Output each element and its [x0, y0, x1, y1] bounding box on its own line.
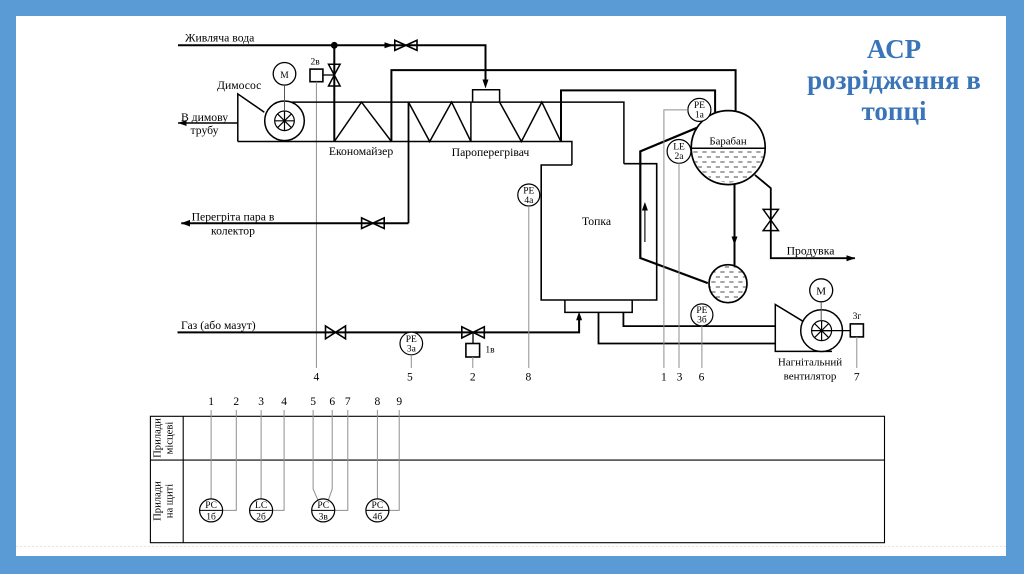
downcomer pipe: [734, 185, 736, 266]
svg-text:4а: 4а: [524, 196, 534, 206]
svg-text:6: 6: [329, 396, 335, 408]
flue duct top wall: [291, 102, 624, 164]
controller PC 3в: [312, 499, 335, 523]
header panel devices: [153, 481, 176, 521]
svg-text:7: 7: [345, 396, 351, 408]
svg-text:2а: 2а: [675, 152, 685, 162]
svg-text:РЕ: РЕ: [696, 306, 707, 316]
svg-text:Топка: Топка: [582, 215, 612, 228]
forced draft fan housing: [775, 305, 832, 352]
economizer outlet pipe to drum: [391, 70, 735, 141]
blowdown valve: [763, 209, 778, 230]
svg-text:8: 8: [526, 371, 532, 383]
controller PC 1б: [200, 499, 223, 523]
svg-text:3в: 3в: [319, 513, 329, 523]
svg-text:трубу: трубу: [191, 124, 219, 137]
forced draft fan: [801, 310, 843, 352]
air duct from fan to burner: [623, 312, 775, 326]
svg-text:Барабан: Барабан: [709, 136, 746, 148]
valve 2в: [329, 64, 341, 86]
svg-text:5: 5: [407, 371, 413, 383]
svg-text:на щиті: на щиті: [165, 484, 176, 518]
svg-text:Прилади: Прилади: [153, 418, 164, 458]
svg-text:РЕ: РЕ: [406, 335, 417, 345]
table header divider: [182, 416, 184, 542]
blowdown arrow: [847, 255, 856, 261]
steam valve: [362, 218, 385, 229]
table column numbers: [208, 396, 402, 408]
table wire 2: [223, 410, 237, 510]
svg-text:2в: 2в: [311, 58, 321, 68]
svg-text:РС: РС: [372, 501, 384, 511]
header local devices: [153, 418, 176, 458]
table wire 9: [389, 410, 399, 510]
svg-text:1: 1: [208, 396, 214, 408]
signal wire from 2в to node 4: [315, 82, 317, 368]
svg-text:2: 2: [233, 396, 239, 408]
svg-text:9: 9: [396, 396, 402, 408]
feed valve: [395, 40, 417, 50]
riser panel wall: [640, 128, 708, 283]
downcomer flow arrow: [734, 205, 736, 239]
svg-text:6: 6: [699, 371, 705, 383]
superheater coil 2: [500, 102, 561, 142]
svg-text:Пароперегрівач: Пароперегрівач: [452, 146, 530, 159]
svg-text:Прилади: Прилади: [153, 481, 164, 521]
gas pipe: [178, 318, 580, 332]
svg-text:3г: 3г: [853, 312, 862, 322]
actuator box 2в: [310, 69, 323, 82]
svg-text:РЕ: РЕ: [694, 101, 705, 111]
table wire 1: [210, 410, 212, 499]
feed junction node: [331, 42, 338, 49]
motor M of smoke exhauster: [273, 63, 296, 86]
svg-text:4: 4: [314, 371, 320, 383]
svg-text:3б: 3б: [697, 315, 707, 326]
signal wire PE3a to node 5: [410, 355, 412, 368]
smoke exhauster fan: [265, 101, 305, 141]
signal wire 1в to node 2: [472, 357, 474, 368]
svg-text:РС: РС: [317, 501, 329, 511]
svg-text:Живляча вода: Живляча вода: [185, 32, 255, 45]
svg-text:7: 7: [854, 371, 860, 383]
svg-text:2: 2: [470, 371, 476, 383]
svg-text:1: 1: [661, 371, 667, 383]
attemperator box: [473, 90, 500, 102]
svg-text:місцеві: місцеві: [165, 422, 176, 455]
signal wire LE2a to node 3: [678, 163, 680, 368]
signal wire PE4a to node 8: [528, 206, 530, 368]
instrument PE 4a: [518, 184, 540, 206]
svg-text:М: М: [280, 71, 289, 81]
svg-text:топці: топці: [861, 96, 927, 126]
faint divider near bottom: [16, 546, 1006, 548]
svg-text:5: 5: [310, 396, 316, 408]
steam arrow: [181, 220, 190, 227]
riser flow arrow: [644, 208, 646, 242]
table wire 5: [313, 410, 318, 500]
svg-text:1а: 1а: [695, 111, 705, 121]
svg-text:М: М: [816, 286, 826, 298]
feed water pipe: [178, 45, 486, 80]
feed arrow down into attemperator box: [483, 80, 489, 89]
chimney outlet wire: [178, 122, 238, 124]
chimney arrow: [178, 120, 187, 126]
signal wire PE3б to node 6: [701, 326, 703, 368]
fan impeller: [812, 321, 832, 341]
instrument PE 3a: [400, 332, 423, 355]
gas valve: [326, 326, 346, 339]
instrument PE 3б: [691, 304, 713, 326]
smoke exhauster housing: [238, 94, 264, 142]
flue duct bottom wall: [238, 142, 572, 166]
svg-text:LC: LC: [255, 501, 267, 511]
actuator box 1в: [466, 344, 480, 358]
economizer coil: [334, 102, 391, 141]
svg-text:Перегріта пара в: Перегріта пара в: [192, 211, 275, 224]
superheated steam line to collector: [181, 222, 408, 224]
svg-text:3: 3: [677, 371, 683, 383]
lower drum: [709, 265, 747, 303]
burner box: [565, 300, 632, 312]
feed arrow into valve: [385, 42, 394, 48]
fan outlet wire: [822, 330, 851, 332]
svg-text:Продувка: Продувка: [787, 245, 836, 258]
svg-text:4: 4: [281, 396, 287, 408]
instrument PE 1a: [688, 98, 711, 121]
svg-text:2б: 2б: [256, 512, 266, 523]
table wire 4: [273, 410, 285, 510]
blowdown pipe: [755, 175, 855, 258]
positioner box 3г: [850, 324, 863, 337]
superheater coil 1: [409, 102, 471, 141]
svg-text:3: 3: [258, 396, 264, 408]
saturated steam pipe from drum to superheater: [561, 90, 715, 141]
superheater left edge / steam outlet: [408, 102, 410, 223]
svg-text:4б: 4б: [373, 512, 383, 523]
svg-text:колектор: колектор: [211, 225, 255, 238]
svg-text:3а: 3а: [407, 344, 417, 354]
svg-text:В димову: В димову: [181, 111, 228, 124]
svg-text:LE: LE: [673, 143, 685, 153]
instrument LE 2a: [667, 140, 691, 164]
control valve 1в: [462, 327, 485, 338]
svg-text:1в: 1в: [485, 346, 495, 356]
table wire 7: [335, 410, 348, 510]
title: [807, 34, 981, 126]
table wire 6: [328, 410, 332, 500]
field node numbers: [314, 371, 860, 383]
controller PC 4б: [366, 499, 389, 523]
signal wire 3г to node 7: [856, 337, 858, 368]
svg-text:Нагнітальний: Нагнітальний: [778, 357, 842, 369]
table row divider: [150, 459, 884, 461]
svg-text:Газ (або мазут): Газ (або мазут): [181, 319, 256, 332]
svg-text:1б: 1б: [206, 512, 216, 523]
table wire 8: [376, 410, 378, 499]
svg-text:розрідження в: розрідження в: [807, 65, 981, 95]
table wire 3: [260, 410, 262, 499]
svg-text:РС: РС: [205, 501, 217, 511]
svg-text:Економайзер: Економайзер: [329, 145, 394, 158]
panel table frame: [150, 416, 884, 542]
svg-text:РЕ: РЕ: [523, 186, 534, 196]
economizer feed branch wire: [333, 45, 335, 141]
svg-text:Димосос: Димосос: [217, 79, 261, 92]
svg-text:8: 8: [375, 396, 381, 408]
gas arrow into burner: [576, 312, 582, 321]
controller LC 2б: [250, 499, 273, 523]
signal wire PE1a to node 1: [664, 110, 688, 368]
motor M of fan: [810, 279, 833, 302]
svg-text:вентилятор: вентилятор: [784, 371, 837, 383]
drum water: [691, 148, 765, 182]
furnace outline: [541, 164, 657, 300]
svg-text:АСР: АСР: [867, 34, 921, 64]
smoke exhauster impeller: [275, 111, 295, 131]
drum: [691, 111, 765, 185]
